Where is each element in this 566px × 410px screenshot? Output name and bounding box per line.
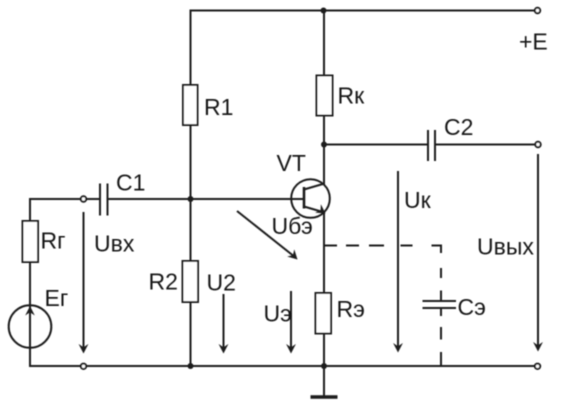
- head U2: [219, 344, 229, 354]
- wire C2 branch: [324, 144, 427, 146]
- head Ube: [287, 249, 297, 259]
- junction dots: [188, 8, 328, 370]
- wire left column (R1/R2 branch): [190, 10, 192, 367]
- open terminals: [81, 8, 541, 369]
- node collector/C2: [321, 142, 327, 148]
- svg-text:Rк: Rк: [338, 83, 366, 109]
- terminal +E: [535, 8, 540, 13]
- svg-text:Сэ: Сэ: [458, 294, 486, 320]
- dashed link emitter to Ce horizontal: [324, 245, 442, 247]
- resistor Re: [316, 293, 332, 334]
- wire top supply rail +E: [190, 10, 536, 12]
- svg-text:Rэ: Rэ: [337, 296, 365, 322]
- wire input left: [30, 198, 99, 200]
- arrow Ube diagonal: [237, 211, 293, 256]
- capacitor C2: [428, 130, 435, 161]
- svg-text:C2: C2: [444, 114, 473, 140]
- svg-text:U2: U2: [207, 270, 236, 296]
- terminal input top: [81, 196, 86, 201]
- terminal output top: [535, 142, 540, 147]
- node collector/top rail: [321, 8, 327, 14]
- head Uvyx: [533, 342, 543, 352]
- node base/C1: [188, 196, 194, 202]
- wire generator branch: [29, 198, 31, 366]
- svg-text:Uбэ: Uбэ: [272, 213, 313, 239]
- wire base: [191, 198, 304, 200]
- ground: [311, 366, 338, 397]
- svg-text:Uвх: Uвх: [94, 231, 135, 257]
- head Uk: [393, 343, 403, 353]
- svg-text:Uк: Uк: [404, 187, 432, 213]
- capacitor Ce: [423, 301, 457, 308]
- arrow Uvyx: [537, 154, 539, 346]
- resistor Rg: [23, 221, 39, 262]
- dashed link Ce vertical: [440, 246, 442, 367]
- svg-text:Uвых: Uвых: [477, 234, 534, 260]
- resistor Rk: [317, 76, 333, 116]
- arrow Uvx: [83, 212, 85, 348]
- source Eg circle: [9, 305, 52, 348]
- head Uvx: [79, 344, 89, 354]
- head Eg arrow up: [25, 306, 35, 316]
- node emitter/bottom: [321, 363, 327, 369]
- svg-text:Uэ: Uэ: [264, 301, 292, 327]
- svg-text:R2: R2: [149, 269, 178, 295]
- svg-text:C1: C1: [116, 170, 145, 196]
- wire emitter column lower: [323, 213, 325, 367]
- head Ue: [286, 344, 296, 354]
- terminal input bottom: [81, 364, 86, 369]
- terminal output bottom: [535, 364, 540, 369]
- svg-text:+E: +E: [519, 29, 548, 55]
- arrow U2: [223, 294, 225, 348]
- svg-text:Rг: Rг: [41, 228, 66, 254]
- transistor VT: [291, 179, 330, 218]
- resistor R2: [183, 261, 199, 302]
- head VT emitter: [315, 204, 325, 213]
- svg-text:Ег: Ег: [45, 285, 69, 311]
- arrowheads (stealth style): [25, 204, 543, 353]
- node R2/bottom: [188, 363, 194, 369]
- wire collector column upper: [323, 11, 325, 185]
- svg-text:R1: R1: [204, 94, 233, 120]
- svg-text:VT: VT: [277, 150, 306, 176]
- arrow Uk: [397, 171, 399, 347]
- arrow Ue: [290, 291, 292, 348]
- capacitor C1: [100, 184, 108, 216]
- resistor R1: [183, 85, 198, 125]
- wire bottom rail: [29, 365, 535, 367]
